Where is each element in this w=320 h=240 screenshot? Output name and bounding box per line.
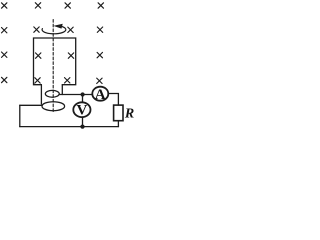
- voltmeter U2 circle: [73, 102, 90, 117]
- field cross row1 col1: [2, 3, 7, 8]
- slip ring 2: [42, 102, 65, 111]
- junction node bottom: [80, 125, 84, 129]
- rotation axis (dashed): [52, 20, 54, 113]
- junction node top: [81, 92, 85, 96]
- voltmeter branch top wire: [82, 95, 84, 103]
- brush wire left: [20, 104, 43, 106]
- field cross row1 col4: [98, 3, 103, 8]
- wire ring1 to ammeter: [59, 94, 92, 96]
- field cross row4 col2: [35, 78, 40, 83]
- field cross row2 col1: [2, 28, 7, 33]
- rotation arrow arc: [42, 26, 66, 34]
- field cross row3 col2: [36, 53, 41, 58]
- svg-text:V: V: [76, 103, 87, 119]
- voltmeter branch bottom wire: [82, 117, 84, 127]
- svg-text:A: A: [95, 87, 106, 103]
- coil frame rectangle: [34, 38, 76, 85]
- field cross row3 col1: [2, 52, 7, 57]
- field cross row2 col3: [68, 27, 73, 32]
- rotation arrow head: [55, 24, 63, 28]
- wire resistor bottom to bottom wire: [117, 121, 119, 127]
- field cross row4 col1: [2, 77, 7, 82]
- field cross row4 col4: [97, 78, 102, 83]
- resistor R box: [114, 105, 123, 121]
- bottom wire: [20, 126, 119, 128]
- field cross row1 col3: [65, 3, 70, 8]
- ammeter U1 circle: [92, 87, 108, 101]
- coil lead left wire: [40, 85, 42, 104]
- field cross row4 col3: [65, 78, 70, 83]
- coil lead right wire: [61, 85, 63, 95]
- svg-text:R: R: [124, 107, 134, 122]
- left vertical wire: [19, 105, 21, 126]
- field cross row2 col4: [97, 27, 102, 32]
- field cross row2 col2: [34, 27, 39, 32]
- field cross row1 col2: [35, 3, 40, 8]
- field cross row3 col4: [97, 52, 102, 57]
- field cross row3 col3: [68, 53, 73, 58]
- wire ammeter to corner and down to resistor: [108, 94, 118, 106]
- slip ring 1: [45, 90, 59, 97]
